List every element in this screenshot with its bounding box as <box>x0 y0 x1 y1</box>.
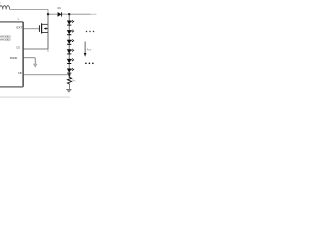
svg-text:MAX16819: MAX16819 <box>0 35 11 38</box>
wire PGND horizontal <box>23 57 35 59</box>
node switch junction dot <box>47 13 49 15</box>
dots ellipsis top <box>86 31 94 32</box>
wire bottom rail <box>0 96 70 98</box>
IC box U1 <box>0 21 23 23</box>
wire LED string vertical <box>68 14 70 77</box>
LED D5 <box>67 49 74 54</box>
wire rail fade end <box>91 13 97 15</box>
LED D3 <box>67 30 74 35</box>
wire CS stub <box>47 49 49 52</box>
LED D7 <box>67 68 74 73</box>
inductor L1 <box>0 6 10 10</box>
diode D1 <box>58 12 62 17</box>
ground PGND <box>33 64 37 68</box>
LED D6 <box>67 58 74 63</box>
node sense junction dot <box>68 74 70 76</box>
resistor RS <box>67 75 71 85</box>
LED D2 <box>67 20 74 25</box>
transistor Q1 <box>39 23 48 33</box>
svg-text:FB: FB <box>18 72 22 75</box>
arrow ILED <box>84 42 92 57</box>
wire FB horizontal <box>23 74 69 76</box>
svg-text:CS: CS <box>16 46 20 49</box>
node LED string top dot <box>68 13 70 15</box>
wire RS to ground <box>68 85 70 90</box>
wire PGND vertical <box>34 58 36 64</box>
svg-text:ILED: ILED <box>87 48 92 51</box>
wire CS horizontal <box>23 48 48 50</box>
wire VIN rail left <box>10 8 48 10</box>
svg-text:m: m <box>17 19 19 21</box>
svg-text:EXT: EXT <box>17 25 23 29</box>
svg-text:MAX16820: MAX16820 <box>0 39 11 42</box>
wire drain vertical <box>47 14 49 24</box>
wire source vertical <box>47 24 49 49</box>
LED D4 <box>67 39 74 44</box>
wire EXT to gate <box>23 28 39 30</box>
ground string <box>66 90 71 93</box>
svg-text:PGND: PGND <box>10 56 18 60</box>
wire switch-node rail right <box>48 13 91 15</box>
dots ellipsis bottom <box>85 63 94 65</box>
wire rail step down <box>47 9 49 14</box>
